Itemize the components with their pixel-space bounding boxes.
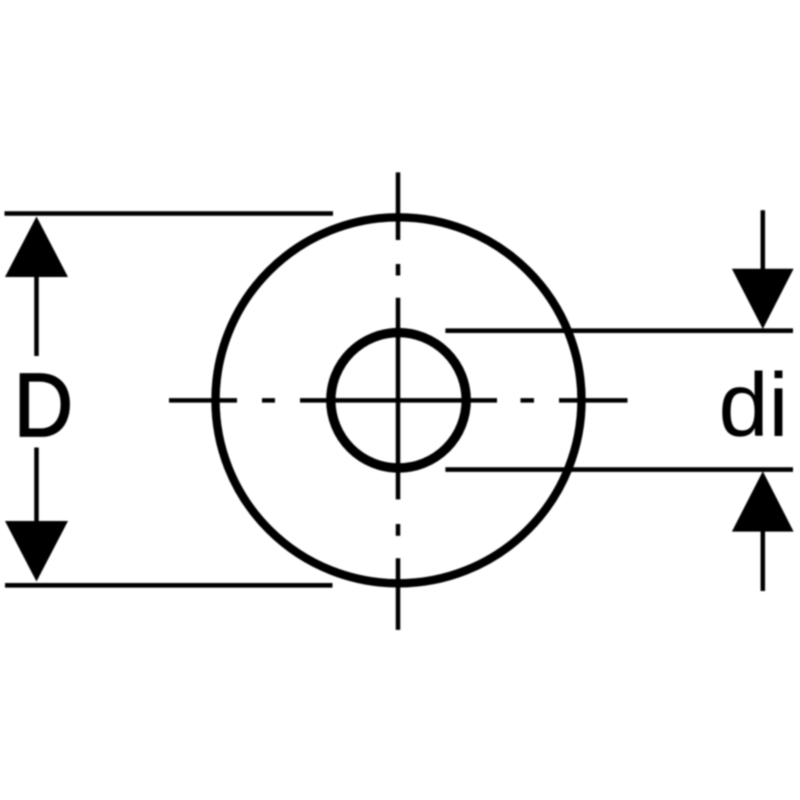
arrowhead di up (bottom-right) [732, 471, 794, 531]
dimension di shaft lower [761, 528, 766, 591]
horizontal centerline [169, 398, 628, 403]
dimension di shaft upper [761, 210, 766, 272]
extension line bottom-left (tangent bottom of outer circle) [5, 583, 333, 588]
extension line top-left (tangent top of outer circle) [5, 211, 334, 216]
dimension D shaft upper [34, 272, 39, 356]
inner circle (washer hole) [331, 333, 466, 468]
outer circle (washer outside diameter) [216, 217, 582, 583]
dimension D shaft lower [34, 448, 39, 526]
svg-text:di: di [719, 356, 789, 456]
extension line top-right (tangent top of inner circle) [445, 328, 793, 333]
arrowhead D up (top-left) [5, 217, 68, 278]
arrowhead D down (bottom-left) [5, 521, 68, 582]
svg-text:D: D [14, 356, 73, 456]
vertical centerline [396, 172, 401, 630]
extension line bottom-right (tangent bottom of inner circle) [445, 467, 793, 472]
arrowhead di down (top-right) [732, 269, 794, 329]
